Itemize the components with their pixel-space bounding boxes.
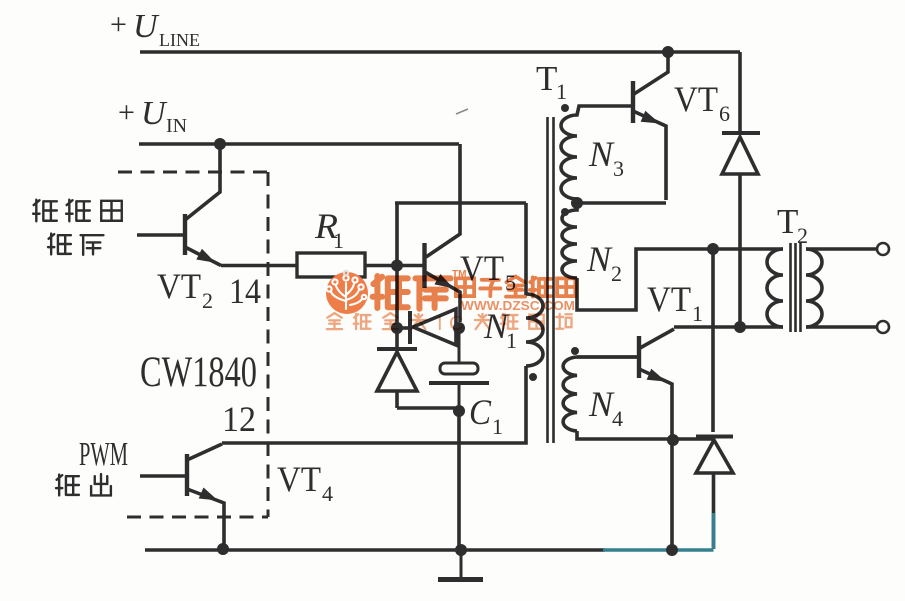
wire N2 bottom to T2 primary top (577, 249, 783, 310)
label driver-bias line2 (CJK) (48, 234, 103, 255)
transistor VT6 (633, 52, 668, 200)
dashed IC boundary right (267, 172, 270, 517)
svg-text:2: 2 (797, 223, 808, 248)
wire base node to VT5 base (400, 264, 424, 268)
watermark text 电子市场网 (CJK) (456, 276, 575, 296)
svg-text:PWM: PWM (79, 436, 128, 473)
label N3 (588, 134, 624, 181)
wire VT1 collector / T2 primary bottom (674, 325, 783, 329)
svg-text:12: 12 (222, 399, 256, 439)
transistor VT2 (137, 144, 297, 266)
node rail/C1-ground (455, 544, 467, 556)
transistor VT4 (140, 444, 224, 548)
watermark logo circle (326, 272, 368, 314)
wire N3/N2 junction to VT6 emitter (577, 201, 666, 205)
dashed IC boundary bottom (127, 516, 268, 519)
wire top bar right down to N1 (524, 203, 528, 295)
label CW1840 (140, 349, 257, 396)
wire base node down to D1 node (395, 266, 399, 323)
label N2 (586, 239, 622, 286)
node N3-N2 junction (571, 197, 583, 209)
svg-text:N: N (586, 239, 613, 279)
node T2 primary top / D4 branch (707, 243, 719, 255)
label pin 12 (222, 399, 256, 439)
diode D1 (402, 309, 456, 345)
label VT4 (277, 459, 333, 506)
wire base node up and top bar (395, 203, 526, 265)
node rail/VT1 emitter (666, 544, 678, 556)
label driver-bias line1 (CJK) (33, 200, 122, 222)
wire D4 to rail highlighted (712, 513, 716, 549)
node VT5 emitter / C1 top (453, 322, 465, 334)
svg-text:4: 4 (612, 406, 623, 431)
svg-text:VT: VT (647, 279, 691, 319)
node rail/VT4 emitter (217, 543, 229, 555)
transformer T2 core (791, 243, 801, 332)
svg-text:1: 1 (333, 228, 344, 253)
diode D3 (722, 52, 760, 322)
winding T2 secondary (806, 249, 822, 327)
svg-text:C: C (469, 392, 492, 432)
diode D4 (696, 437, 733, 550)
wire T2-top node to D4 cathode (711, 254, 715, 432)
watermark www.dzsc.com (461, 298, 575, 313)
winding N2 (562, 199, 577, 278)
transformer T1 core (548, 117, 554, 443)
wire +U_LINE rail (140, 50, 740, 54)
svg-text:6: 6 (719, 101, 730, 126)
ground (438, 550, 483, 580)
node VT6-collector on +U_LINE (662, 46, 674, 58)
winding T2 primary (767, 249, 783, 327)
wire N1 bottom to VT4 collector line (222, 366, 526, 443)
label N4 (588, 384, 623, 431)
watermark TM (452, 269, 466, 280)
phase dot N1 (529, 373, 537, 381)
label VT2 (157, 266, 213, 313)
label VT6 (674, 79, 730, 126)
svg-text:1: 1 (692, 301, 703, 326)
wire T2 secondary top lead (806, 247, 876, 251)
watermark big text 维库 (CJK) (373, 276, 451, 309)
node D3 anode on T2 bottom lead (734, 321, 746, 333)
svg-text:I: I (437, 313, 443, 335)
watermark bottom line 全球最大IC采购网站 (327, 313, 572, 335)
svg-text:U: U (141, 95, 168, 132)
label VT5 (460, 248, 516, 295)
wire ground rail highlighted segment (603, 548, 714, 552)
label T1 (536, 59, 567, 104)
svg-text:2: 2 (611, 261, 622, 286)
svg-text:14: 14 (229, 271, 261, 311)
svg-text:4: 4 (322, 481, 333, 506)
diode D2 (377, 333, 455, 408)
node VT1 emitter / N4 bottom (667, 434, 679, 446)
svg-text:VT: VT (674, 79, 718, 119)
svg-text:1: 1 (492, 414, 503, 439)
label R1 (314, 206, 344, 253)
svg-text:U: U (133, 8, 160, 45)
phase dot N2 (561, 208, 569, 216)
label +U_IN (118, 95, 187, 137)
node C1 bottom (453, 405, 465, 417)
wire T2 secondary bottom lead (806, 325, 876, 329)
label PWM-out (CJK) (56, 474, 111, 495)
svg-text:+: + (118, 96, 135, 129)
svg-text:2: 2 (202, 288, 213, 313)
transistor VT5 (425, 144, 461, 322)
terminal top output (877, 243, 889, 255)
svg-text:WWW.DZSC.COM: WWW.DZSC.COM (461, 298, 575, 313)
phase dot N4 (571, 347, 579, 355)
node VT5 base (R1 right) (391, 260, 403, 272)
svg-text:IN: IN (166, 115, 187, 137)
label PWM (79, 436, 128, 473)
svg-text:T: T (536, 59, 557, 98)
svg-text:LINE: LINE (159, 30, 200, 50)
label N1 (483, 306, 517, 353)
svg-text:N: N (588, 384, 615, 424)
svg-text:+: + (110, 8, 127, 41)
svg-text:CW1840: CW1840 (140, 349, 257, 396)
winding N1 (526, 294, 543, 366)
dashed IC boundary top (118, 171, 268, 174)
scan speckle (456, 109, 468, 114)
phase dot N3 (561, 104, 569, 112)
terminal bottom output (877, 321, 889, 333)
svg-text:1: 1 (506, 328, 517, 353)
svg-text:VT: VT (157, 266, 201, 306)
wire +U_IN rail (139, 142, 459, 146)
svg-text:VT: VT (277, 459, 321, 499)
resistor R1 (297, 253, 365, 277)
label pin 14 (229, 271, 261, 311)
node D1 cathode (391, 322, 403, 334)
transistor VT1 (577, 329, 674, 549)
capacitor C1 (429, 333, 489, 406)
wire ground rail (145, 548, 605, 552)
svg-text:T: T (777, 202, 798, 241)
svg-text:C: C (449, 313, 463, 335)
svg-text:3: 3 (613, 156, 624, 181)
wire N4 bottom lead (577, 431, 713, 439)
node VT2-collector on +U_IN (214, 138, 226, 150)
wire C1 bottom to ground rail (457, 415, 461, 549)
winding N3 with top lead (561, 106, 632, 199)
label +U_LINE (110, 8, 200, 50)
label T2 (777, 202, 808, 248)
winding N4 with top lead (563, 357, 638, 431)
watermark logo circuit icon (326, 271, 366, 309)
svg-text:1: 1 (556, 79, 567, 104)
svg-text:N: N (588, 134, 615, 174)
label VT1 (647, 279, 703, 326)
wire R1 to base node (365, 264, 392, 268)
label C1 (469, 392, 503, 439)
